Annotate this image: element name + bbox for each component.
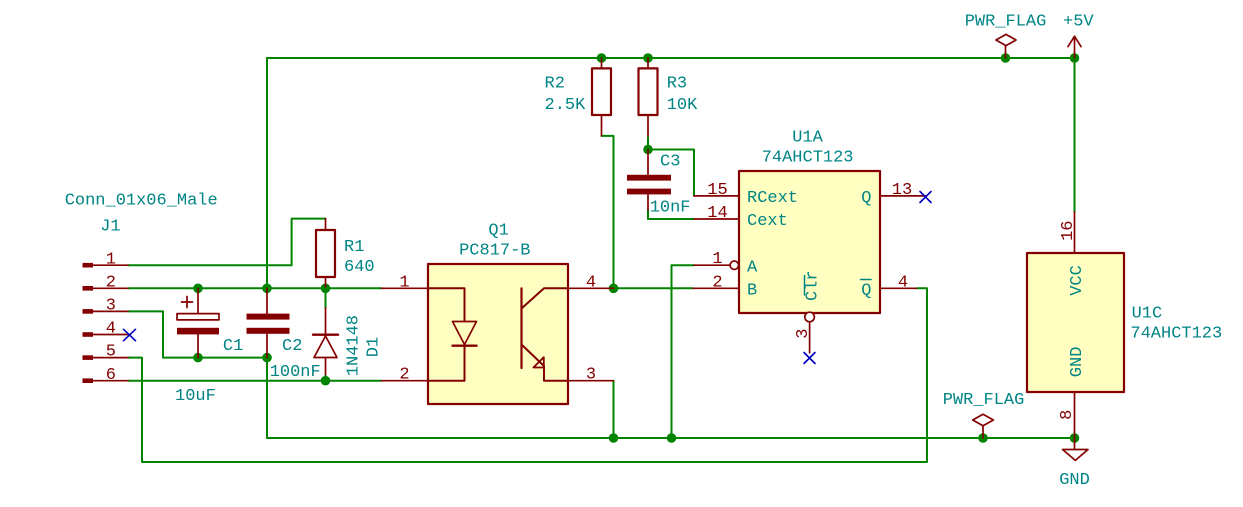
wire +5V top rail — [267, 57, 1075, 59]
wire GND rail: C2 bottom drop and bottom rail — [267, 358, 1075, 438]
svg-text:1N4148: 1N4148 — [345, 315, 364, 376]
capacitor C1 — [197, 288, 199, 313]
svg-text:74AHCT123: 74AHCT123 — [762, 149, 854, 168]
junction C1 bottom — [193, 353, 203, 363]
U1A pin 4 Qbar — [880, 287, 917, 289]
wire J1 pin5 to U1A Qbar return — [128, 288, 927, 462]
ground GND — [1074, 438, 1076, 450]
wire J1 pin3 to C1/C2 bottoms — [128, 311, 267, 357]
wire top-rail left drop to C2 top — [266, 58, 268, 288]
svg-text:4: 4 — [106, 320, 116, 339]
svg-text:GND: GND — [1068, 347, 1087, 378]
connector J1 pin 5 — [93, 357, 128, 359]
wire node B to U1A pin2 — [614, 287, 694, 289]
junction U1C pin8 / GND — [1070, 433, 1080, 443]
junction C2 bottom — [262, 353, 272, 363]
svg-text:RCext: RCext — [747, 189, 798, 208]
resistor R3 — [647, 58, 649, 136]
U1C pin 16 VCC — [1074, 212, 1076, 253]
no-connect X on J1 pin 4 — [124, 329, 136, 340]
power symbol +5V — [1074, 36, 1076, 58]
Q1 internal phototransistor — [522, 288, 569, 308]
junction D1 bottom — [321, 376, 331, 386]
svg-text:D1: D1 — [365, 337, 384, 357]
svg-text:8: 8 — [1058, 410, 1077, 420]
wire C3 bottom to U1A pin14 — [648, 210, 694, 219]
svg-text:3: 3 — [794, 328, 813, 338]
power symbol PWR_FLAG (bottom) — [973, 414, 994, 426]
svg-text:10nF: 10nF — [650, 199, 691, 218]
svg-text:GND: GND — [1059, 471, 1090, 490]
svg-text:C2: C2 — [282, 337, 302, 356]
capacitor C2 — [266, 288, 268, 313]
svg-text:3: 3 — [106, 297, 116, 316]
svg-text:6: 6 — [106, 366, 116, 385]
Q1 pin 2 — [382, 380, 429, 382]
J1 pin numbers — [106, 250, 116, 385]
connector J1 pin 6 — [93, 380, 128, 382]
connector J1 pin 4 — [93, 334, 128, 336]
IC U1A body — [739, 171, 880, 313]
power symbol PWR_FLAG (top) — [996, 34, 1016, 45]
svg-text:4: 4 — [898, 273, 908, 292]
wire Q1 pin3 emitter to GND rail — [613, 381, 615, 438]
svg-text:Conn_01x06_Male: Conn_01x06_Male — [65, 192, 218, 211]
svg-text:640: 640 — [344, 258, 375, 277]
svg-text:2: 2 — [712, 273, 722, 292]
wire U1A pinA to GND rail — [672, 265, 695, 438]
junction C3 top — [643, 145, 653, 155]
svg-text:R2: R2 — [545, 74, 565, 93]
svg-text:2.5K: 2.5K — [545, 96, 587, 115]
no-connect X on U1A pin 3 — [804, 353, 815, 364]
svg-text:J1: J1 — [100, 218, 120, 237]
wire J1 pin2 row to Q1 pin1 — [128, 287, 382, 289]
Q1 pin 3 — [568, 380, 614, 382]
svg-text:1: 1 — [712, 250, 722, 269]
junction C1 top — [193, 284, 203, 294]
wire top rail to U1C pin16 — [1074, 58, 1076, 212]
optocoupler Q1 body — [428, 264, 568, 404]
svg-text:R3: R3 — [667, 74, 687, 93]
resistor R2 — [601, 58, 603, 136]
svg-text:16: 16 — [1059, 220, 1078, 240]
IC U1C body — [1027, 253, 1124, 392]
svg-text:1: 1 — [106, 250, 116, 269]
Q1 internal LED — [428, 288, 465, 321]
svg-text:74AHCT123: 74AHCT123 — [1130, 325, 1222, 344]
svg-text:100nF: 100nF — [270, 363, 321, 382]
svg-text:3: 3 — [586, 366, 596, 385]
junction U1A pinA on GND rail — [667, 433, 677, 443]
capacitor C3 — [647, 150, 649, 175]
wire J1 pin1 to R1 top — [128, 219, 326, 266]
svg-text:R1: R1 — [344, 238, 364, 257]
svg-text:10uF: 10uF — [175, 387, 216, 406]
svg-text:C1: C1 — [223, 337, 243, 356]
Q1 pin 4 — [568, 287, 614, 289]
junction R3 top — [643, 53, 653, 63]
svg-text:13: 13 — [892, 181, 912, 200]
U1A pin 2 B — [693, 287, 739, 289]
connector J1 pin 1 — [93, 264, 128, 266]
svg-text:PWR_FLAG: PWR_FLAG — [943, 391, 1025, 410]
svg-text:5: 5 — [106, 343, 116, 362]
no-connect X on U1A pin 13 — [920, 192, 931, 203]
U1C pin 8 GND — [1074, 392, 1076, 438]
connector J1 pin 2 — [93, 287, 128, 289]
junction node B / Q1 pin4 — [609, 284, 619, 294]
svg-text:U1C: U1C — [1132, 305, 1163, 324]
svg-text:Clr: Clr — [804, 270, 823, 301]
junction R2 top — [597, 53, 607, 63]
svg-text:Cext: Cext — [747, 212, 788, 231]
Q1 pin 1 — [382, 287, 429, 289]
svg-text:10K: 10K — [667, 96, 698, 115]
svg-text:+5V: +5V — [1063, 13, 1094, 32]
svg-text:C3: C3 — [660, 153, 680, 172]
wire R3 bottom to C3 top node — [647, 136, 649, 150]
U1A pin 1 A (inverted) — [694, 264, 730, 266]
junction PWR_FLAG top — [1001, 53, 1011, 63]
diode D1 — [325, 288, 327, 308]
svg-text:VCC: VCC — [1068, 265, 1087, 296]
svg-text:Q: Q — [861, 189, 871, 208]
svg-text:PWR_FLAG: PWR_FLAG — [965, 13, 1047, 32]
svg-text:Q1: Q1 — [488, 222, 508, 241]
resistor R1 — [325, 219, 327, 289]
wire C3 node to U1A pin15 — [648, 150, 694, 196]
svg-text:2: 2 — [399, 366, 409, 385]
svg-text:Q: Q — [861, 282, 871, 301]
junction R1 bottom / D1 top — [321, 284, 331, 294]
junction C2 top — [262, 284, 272, 294]
svg-text:4: 4 — [586, 273, 596, 292]
svg-text:1: 1 — [399, 273, 409, 292]
wire J1 pin6 row to Q1 pin2 — [128, 380, 382, 382]
connector J1 pin 3 — [93, 310, 128, 312]
U1A pin 15 RCext — [694, 195, 739, 197]
U1A pin 13 Q — [880, 195, 927, 197]
junction PWR_FLAG bottom — [978, 433, 988, 443]
junction Q1 pin3 on GND rail — [609, 433, 619, 443]
svg-text:PC817-B: PC817-B — [459, 242, 530, 261]
junction +5V / U1C VCC — [1070, 53, 1080, 63]
U1A pin 14 Cext — [694, 218, 739, 220]
svg-text:15: 15 — [707, 181, 727, 200]
svg-text:B: B — [747, 282, 757, 301]
svg-text:A: A — [747, 258, 758, 277]
svg-text:U1A: U1A — [792, 129, 823, 148]
svg-text:14: 14 — [707, 204, 727, 223]
wire R2 bottom to node B — [602, 136, 614, 288]
svg-text:2: 2 — [106, 273, 116, 292]
U1A pin 3 Clr (inverted, bottom) — [805, 312, 815, 322]
